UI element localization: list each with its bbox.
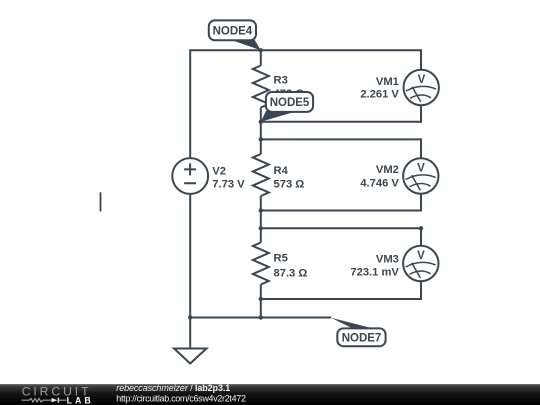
wire middle R4-R5 — [260, 196, 262, 243]
wire ground stem — [189, 318, 191, 349]
svg-text:R4: R4 — [274, 165, 289, 177]
wire loop1 bottom — [261, 121, 421, 123]
voltmeter VM3 — [350, 246, 438, 281]
svg-text:rebeccaschmelzer / lab2p3.1: rebeccaschmelzer / lab2p3.1 — [116, 383, 230, 393]
svg-text:http://circuitlab.com/c6sw4v2r: http://circuitlab.com/c6sw4v2r2t472 — [116, 394, 246, 404]
svg-text:NODE4: NODE4 — [213, 25, 253, 37]
wire middle R3 top lead — [260, 50, 262, 65]
voltmeter VM1 — [360, 70, 439, 105]
wire ground horizontal — [190, 317, 331, 319]
wire middle R5 bottom lead — [260, 285, 262, 318]
wire left vertical lower — [189, 194, 191, 318]
wire stub — [100, 192, 102, 211]
svg-text:V2: V2 — [212, 165, 226, 177]
svg-text:NODE5: NODE5 — [270, 97, 310, 109]
wire left vertical upper — [189, 49, 191, 158]
node junction dot NODE4 anchor — [259, 48, 263, 52]
node junction dot loop2 bottom-left — [259, 208, 263, 212]
node junction dot ground-left — [188, 315, 192, 319]
CircuitLab logo wordmark — [22, 385, 94, 405]
svg-text:87.3 Ω: 87.3 Ω — [274, 267, 308, 279]
footer bar — [0, 384, 540, 405]
resistor R3 — [253, 66, 304, 108]
node junction dot ground-middle — [259, 315, 263, 319]
wire VM3 bottom lead — [420, 281, 422, 300]
wire loop2 top — [261, 138, 421, 140]
svg-text:2.261 V: 2.261 V — [360, 89, 399, 101]
wire VM1 top lead — [420, 49, 422, 70]
svg-text:VM3: VM3 — [376, 254, 399, 266]
svg-text:R3: R3 — [274, 74, 288, 86]
svg-text:723.1 mV: 723.1 mV — [350, 267, 399, 279]
resistor R4 — [253, 154, 304, 196]
wire VM2 bottom lead — [420, 193, 422, 211]
wire VM1 bottom lead — [420, 105, 422, 123]
svg-text:VM1: VM1 — [376, 76, 399, 88]
voltmeter VM2 — [360, 158, 438, 193]
node junction dot loop2 top-left — [259, 137, 263, 141]
svg-text:4.746 V: 4.746 V — [360, 177, 399, 189]
wire VM3 top lead — [420, 228, 422, 246]
svg-text:R5: R5 — [274, 253, 288, 265]
node junction dot loop3 bottom-left — [259, 297, 263, 301]
voltage source V2 — [172, 158, 245, 194]
ground — [174, 349, 207, 364]
wire VM2 top lead — [420, 138, 422, 159]
svg-text:573 Ω: 573 Ω — [274, 179, 305, 191]
node junction dot loop3 top-left — [259, 226, 263, 230]
CircuitLab logo resistor-diode squiggle — [22, 398, 67, 403]
resistor R5 — [253, 243, 308, 285]
node junction dot loop3 top-right — [419, 226, 423, 230]
wire top horizontal — [190, 49, 421, 51]
wire loop3 bottom — [261, 298, 421, 300]
node junction dot NODE5 anchor — [259, 120, 263, 124]
svg-text:V: V — [417, 162, 425, 174]
node NODE4 label callout — [209, 20, 261, 50]
svg-text:V: V — [417, 250, 425, 262]
node NODE7 label callout — [331, 318, 385, 346]
svg-text:NODE7: NODE7 — [342, 333, 382, 345]
svg-text:7.73 V: 7.73 V — [212, 179, 245, 191]
wire loop2 bottom — [261, 210, 421, 212]
wire loop3 top — [261, 227, 421, 229]
svg-text:LAB: LAB — [67, 396, 94, 405]
svg-text:V: V — [418, 74, 426, 86]
node NODE5 label callout — [261, 92, 313, 122]
svg-text:VM2: VM2 — [376, 164, 399, 176]
wire middle R3-R4 — [260, 108, 262, 155]
